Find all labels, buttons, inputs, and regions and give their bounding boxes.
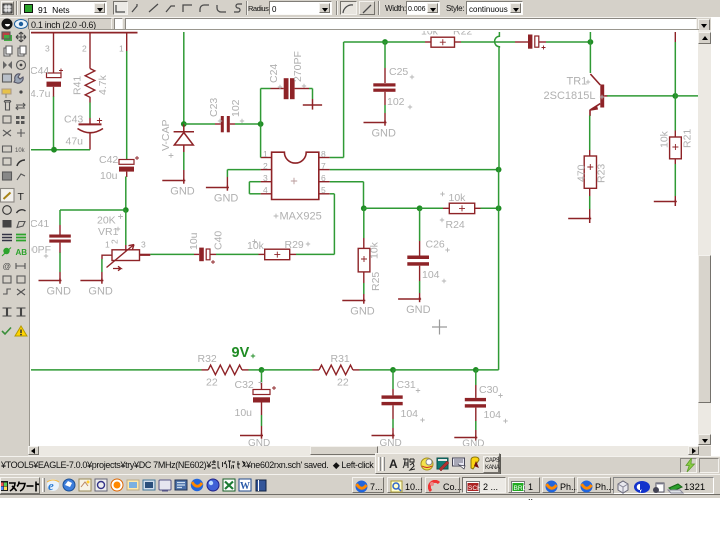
capacitor C43 (polarized) <box>78 124 104 149</box>
junction C42/C41/VR1 <box>123 207 129 213</box>
R22 left pin <box>425 41 431 43</box>
U1 pin 8 stub <box>319 157 330 159</box>
wire pin2 to GND <box>227 169 260 171</box>
resistor R23 <box>584 156 596 188</box>
R23 bottom pin <box>589 188 591 196</box>
ground bar under R23 <box>568 217 591 224</box>
svg-text:C40: C40 <box>213 231 225 250</box>
svg-text:V-CAP: V-CAP <box>160 119 172 151</box>
wire C44 to GND net <box>53 97 55 150</box>
C40 right pin <box>210 253 216 255</box>
svg-text:4.7k: 4.7k <box>97 74 109 95</box>
gnd pin <box>475 430 477 438</box>
svg-text:GND: GND <box>88 286 113 298</box>
capacitor C21 (polarized) <box>528 35 539 49</box>
U1 pin 5 stub <box>319 193 330 195</box>
wire R25 to GND <box>363 283 365 294</box>
connector edge (off-screen part) top <box>31 32 138 34</box>
junction C44/net <box>51 147 57 153</box>
C26 top pin <box>419 241 421 256</box>
wire top to varactor <box>183 32 185 124</box>
R21 bottom pin <box>674 159 676 164</box>
coordinate display <box>28 18 112 30</box>
svg-text:GND: GND <box>214 193 239 205</box>
junction C23/C24/pin1 <box>258 121 264 127</box>
svg-text:R22: R22 <box>453 31 472 38</box>
trash / pinswap <box>4 101 11 111</box>
junction C31 tap <box>390 367 396 373</box>
svg-text:1: 1 <box>119 44 124 54</box>
R23 top pin <box>589 150 591 156</box>
mirror / rotate <box>3 61 12 69</box>
svg-text:GND: GND <box>248 438 270 446</box>
wire R41 to C43 <box>89 103 91 119</box>
capacitor C40 (polarized) <box>199 248 210 262</box>
U1 pin 7 stub <box>319 169 330 171</box>
svg-text:C23: C23 <box>208 98 220 117</box>
gates <box>3 289 11 294</box>
R25 top pin <box>363 238 365 248</box>
gnd pin <box>261 426 263 436</box>
svg-text:@: @ <box>3 261 12 271</box>
R29 right pin <box>290 253 296 255</box>
wire varactor to GND <box>183 152 185 170</box>
info and eye tool icons top-left <box>0 17 29 30</box>
ground GND under C32 <box>240 434 263 439</box>
wire pin6 right <box>330 181 364 183</box>
svg-text:4: 4 <box>263 185 268 195</box>
U1 origin cross <box>291 178 297 184</box>
svg-text:10k: 10k <box>15 148 26 154</box>
scrollbar right arrow <box>688 446 699 455</box>
wire up to pin5 <box>333 194 335 255</box>
wire C30 to GND <box>475 421 477 430</box>
wire pin8 right <box>330 157 344 159</box>
erc boxes <box>3 276 11 283</box>
circle / arc <box>3 206 12 215</box>
svg-text:C25: C25 <box>389 66 408 78</box>
wire pin1 to C42 <box>126 51 128 159</box>
bus / net <box>2 235 12 241</box>
svg-text:GND: GND <box>406 304 431 316</box>
svg-text:22: 22 <box>206 377 218 389</box>
wire VR1-1 to GND <box>101 259 103 272</box>
ground GND under C26 <box>398 297 421 302</box>
svg-text:R23: R23 <box>596 164 608 183</box>
svg-text:9V: 9V <box>232 345 250 361</box>
wire to R24 <box>420 207 443 209</box>
junction R24/vertical <box>496 205 502 211</box>
wire junction down to C30 <box>475 370 477 385</box>
wire C23 to junction <box>235 123 261 125</box>
wire rail to C30 junction <box>393 369 476 371</box>
wire junction to C41 <box>60 209 126 211</box>
svg-text:10k: 10k <box>659 130 671 148</box>
wire corner to C24 <box>261 88 271 90</box>
gnd pin <box>674 196 676 202</box>
wire R31 to C31 junction <box>360 369 394 371</box>
junction C25 tap <box>382 39 388 45</box>
wire left gnd net <box>31 149 90 151</box>
svg-text:8: 8 <box>321 149 326 159</box>
capacitor C24 <box>284 78 295 99</box>
gateswap / lock <box>3 130 11 136</box>
ground GND under R25 <box>342 299 365 304</box>
R31 left pin <box>313 369 320 371</box>
resistor R24 <box>449 203 474 213</box>
rect / polygon <box>3 220 12 228</box>
info / optimize <box>3 172 12 180</box>
svg-text:102: 102 <box>230 99 242 117</box>
ground bar under R21 <box>654 200 677 207</box>
wire junction down to C26 <box>419 208 421 241</box>
wire R24 to vertical net <box>481 207 499 209</box>
svg-text:C44: C44 <box>31 65 49 77</box>
miter button <box>359 1 375 15</box>
wire pin6 down <box>363 182 365 209</box>
svg-text:C30: C30 <box>479 384 498 396</box>
C40 left pin <box>194 253 199 255</box>
wire junction up to C24 net <box>260 89 262 125</box>
VR1 direction arrow <box>113 266 121 270</box>
junction C30 tap <box>473 367 479 373</box>
command line <box>125 18 697 30</box>
pin C41 top <box>59 225 61 235</box>
potentiometer VR1 <box>102 245 150 268</box>
check / erc warning <box>2 328 11 335</box>
wire C40 to R29 <box>216 253 259 255</box>
capacitor C31 <box>382 395 403 405</box>
resistor R29 <box>265 249 290 260</box>
wire VR1 to C40 <box>150 253 194 255</box>
gnd pin <box>589 209 591 219</box>
wire R23 to GND <box>589 196 591 209</box>
capacitor C30 <box>465 398 486 408</box>
wire pin2 to R41 <box>89 32 91 69</box>
svg-text:10u: 10u <box>235 407 253 419</box>
svg-text:10k: 10k <box>449 192 467 204</box>
svg-text:W: W <box>240 481 250 492</box>
svg-text:GND: GND <box>380 438 402 446</box>
ground GND under VR1 <box>80 279 103 284</box>
resistor R25 <box>358 248 370 272</box>
small box <box>114 18 123 30</box>
wire corner down <box>226 170 228 177</box>
svg-text:C42: C42 <box>99 154 118 166</box>
capacitor C23 <box>221 116 230 132</box>
gnd pin <box>384 113 386 122</box>
svg-text:00PF: 00PF <box>31 244 51 256</box>
svg-text:3: 3 <box>45 44 50 54</box>
wire junction to C26 junction <box>364 207 420 209</box>
wire R32 to C32 junction <box>249 369 262 371</box>
U1 pin 3 stub <box>261 181 272 183</box>
svg-text:AB: AB <box>16 248 28 257</box>
replace / array <box>3 116 11 123</box>
wire TR1 base net <box>607 95 675 97</box>
ground GND under varactor <box>162 179 185 184</box>
start button <box>0 477 40 494</box>
svg-text:MAX925: MAX925 <box>280 211 322 223</box>
svg-text:C32: C32 <box>235 379 254 391</box>
U1 pin 6 stub <box>319 181 330 183</box>
svg-text:R32: R32 <box>198 353 217 365</box>
svg-text:R31: R31 <box>331 353 350 365</box>
wire base junction to R21 <box>674 96 676 131</box>
junction R25 top <box>361 205 367 211</box>
svg-text:GND: GND <box>372 128 397 140</box>
wire top net left segment <box>344 41 379 43</box>
svg-text:VR1: VR1 <box>98 226 119 238</box>
capacitor C26 <box>407 256 429 266</box>
capacitor C44 <box>47 73 62 97</box>
svg-text:270PF: 270PF <box>292 51 304 82</box>
wire C32 to GND <box>261 415 263 426</box>
resistor R31 <box>319 365 353 375</box>
wire down to C41 <box>59 210 61 225</box>
junction collector net <box>588 39 594 45</box>
ground GND under C41 <box>39 279 62 284</box>
scrollbar thumb <box>698 255 711 403</box>
svg-text:2SC1815L: 2SC1815L <box>544 90 596 102</box>
wire top to base junction <box>674 42 676 96</box>
svg-text:47u: 47u <box>66 136 84 148</box>
arc button pressed <box>340 1 357 15</box>
svg-text:T: T <box>18 191 25 203</box>
wire top net to R22 <box>379 41 425 43</box>
gnd pin <box>101 272 103 281</box>
C32 top pin <box>261 383 263 390</box>
U1 pin 2 stub <box>261 169 272 171</box>
grid button <box>1 1 14 15</box>
C25 top pin <box>384 68 386 83</box>
U1 pin 4 stub <box>261 193 272 195</box>
svg-text:2: 2 <box>110 239 120 244</box>
svg-text:10k: 10k <box>369 241 381 259</box>
gnd pin <box>183 170 185 180</box>
origin cross marker <box>432 320 447 335</box>
svg-text:10k: 10k <box>421 31 439 38</box>
VR1 pin3 stub <box>140 253 151 255</box>
wire C21 to TR1 collector net <box>546 41 590 43</box>
wire junction down to C32 <box>261 370 263 383</box>
wire C26 to GND <box>419 281 421 293</box>
wire R22 to hop <box>461 41 515 43</box>
ground GND at pin2 <box>206 186 229 191</box>
name / value <box>3 146 12 152</box>
svg-text:470: 470 <box>576 164 588 182</box>
svg-text:10u: 10u <box>188 232 200 250</box>
wire 9V rail left <box>31 369 202 371</box>
svg-text:C24: C24 <box>268 64 280 83</box>
scrollbar h thumb <box>310 446 378 455</box>
gnd pin <box>226 177 228 187</box>
svg-text:GND: GND <box>350 306 375 318</box>
svg-text:GND: GND <box>170 186 195 198</box>
varactor diode V-CAP <box>174 124 194 152</box>
wire pin3-4 loop left <box>248 182 250 194</box>
wire vertical net upper <box>498 48 500 170</box>
radius combo <box>269 1 332 15</box>
scrollbar down arrow <box>698 434 711 445</box>
svg-text:SCH: SCH <box>468 485 480 492</box>
svg-text:GND: GND <box>47 286 72 298</box>
svg-text:R25: R25 <box>370 272 382 291</box>
svg-text:22: 22 <box>337 377 349 389</box>
bracket boxes <box>3 308 26 316</box>
junction C26 tap <box>417 205 423 211</box>
wire R21 to GND <box>674 164 676 196</box>
group / wrench <box>3 74 12 82</box>
gnd pin <box>419 293 421 299</box>
svg-text:C31: C31 <box>397 379 416 391</box>
svg-text:GND: GND <box>462 439 484 446</box>
svg-text:2: 2 <box>82 44 87 54</box>
svg-text:C26: C26 <box>426 239 445 251</box>
svg-text:BRD: BRD <box>514 485 526 492</box>
ground bar under C24 <box>303 99 322 110</box>
svg-text:C43: C43 <box>64 114 83 126</box>
C24 right pin <box>295 88 309 90</box>
svg-text:104: 104 <box>484 409 502 421</box>
C24 left pin <box>271 88 284 90</box>
CAPS KANA button <box>483 456 499 473</box>
wire junction down to C25 <box>384 42 386 68</box>
svg-text:2: 2 <box>263 161 268 171</box>
svg-text:3: 3 <box>141 240 146 250</box>
katakana start text <box>8 480 40 493</box>
system tray <box>613 477 714 494</box>
capacitor C25 <box>373 83 395 91</box>
svg-text:R24: R24 <box>446 219 465 231</box>
svg-text:3: 3 <box>263 173 268 183</box>
resistor R21 <box>670 137 682 159</box>
junction C32 tap <box>259 367 265 373</box>
junction / label <box>3 248 9 254</box>
junction base/R21 <box>672 93 678 99</box>
U1 pin 1 stub <box>261 157 272 159</box>
capacitor C41 <box>49 235 71 254</box>
wire R29 to corner <box>296 253 334 255</box>
R24 left pin <box>443 207 449 209</box>
op-amp U1 MAX925 <box>272 152 319 199</box>
svg-text:7: 7 <box>321 161 326 171</box>
C23 right pin <box>230 123 235 125</box>
resistor R22 <box>431 37 455 47</box>
wire junction to R25 <box>363 208 365 238</box>
smash / miter <box>3 158 11 165</box>
active task button <box>462 477 506 493</box>
width combo <box>406 1 440 15</box>
wire(pressed) / text <box>1 189 15 203</box>
svg-text:C41: C41 <box>31 218 49 230</box>
wire junction to VR1 wiper <box>125 210 127 245</box>
ground GND under C30 <box>454 436 477 441</box>
resistor R32 <box>208 365 242 375</box>
wire C42 to junction <box>125 177 127 211</box>
junction pin7/vertical <box>496 167 502 173</box>
svg-text:6: 6 <box>321 173 326 183</box>
transistor TR1 2SC1815L <box>590 74 608 116</box>
svg-text:104: 104 <box>401 408 419 420</box>
C21 left pin <box>515 41 528 43</box>
wire vertical net lower <box>498 208 500 370</box>
R31 right pin <box>353 369 360 371</box>
wire junction down to pin1 <box>260 124 262 158</box>
svg-text:R21: R21 <box>682 129 694 148</box>
R29 left pin <box>259 253 265 255</box>
wire corner to pin5 stub <box>330 193 335 195</box>
wire emitter to R23 <box>589 116 591 151</box>
wire junction down to C31 <box>392 370 394 389</box>
wire junction down to TR1 collector <box>589 42 591 73</box>
paint / dot <box>2 89 11 94</box>
ground GND under C25 <box>364 121 387 126</box>
wire pin8 up to top net <box>343 42 345 158</box>
gnd pin <box>363 294 365 301</box>
wire C25 to GND <box>384 105 386 113</box>
svg-text:1: 1 <box>263 149 268 159</box>
R25 bottom pin <box>363 272 365 283</box>
R32 right pin <box>242 369 249 371</box>
pin 1 stub <box>126 32 128 51</box>
IME tool icons <box>420 457 434 471</box>
copy <box>4 48 10 56</box>
svg-text:R29: R29 <box>285 239 304 251</box>
task buttons <box>352 477 384 493</box>
wire C31 to GND <box>392 419 394 428</box>
wire top edge stub <box>589 32 591 42</box>
wire pin7 to vertical net <box>330 169 499 171</box>
svg-text:20K: 20K <box>97 215 116 227</box>
gnd pin <box>392 428 394 436</box>
EAGLE activity lightning <box>680 458 697 473</box>
gnd pin <box>59 272 61 281</box>
R24 right pin <box>475 207 481 209</box>
capacitor C32 (polarized) <box>253 390 270 403</box>
scrollbar left arrow <box>28 446 39 455</box>
scrollbar up arrow <box>698 32 711 44</box>
C31 top pin <box>392 389 394 395</box>
wire down to bar <box>312 89 314 100</box>
svg-text:R41: R41 <box>72 76 84 95</box>
svg-text:1: 1 <box>105 240 110 250</box>
C21 right pin <box>539 41 546 43</box>
pin stub from top at R21 net <box>674 32 676 42</box>
C23 left pin <box>215 123 221 125</box>
svg-text:104: 104 <box>422 269 440 281</box>
wire rail to vertical net corner <box>476 369 499 371</box>
svg-text:5: 5 <box>321 185 326 195</box>
wire C24 to corner <box>309 88 313 90</box>
wire varactor to C23 <box>184 123 215 125</box>
capacitor C42 (polarized) <box>119 160 134 178</box>
wire C41 to GND <box>59 253 61 273</box>
wire pin3 loop top <box>249 181 260 183</box>
wire hop over vertical net <box>495 32 500 48</box>
wire pin4 loop bottom <box>249 193 260 195</box>
wire vertical net middle <box>498 170 500 209</box>
style combo <box>466 1 523 15</box>
C30 top pin <box>475 385 477 398</box>
ground GND under C31 <box>372 434 395 439</box>
wire base net to canvas edge <box>675 95 700 97</box>
pin C43 top <box>89 118 91 124</box>
R32 left pin <box>202 369 209 371</box>
resistor R41 <box>85 69 95 103</box>
wire pin3 to C44 <box>53 32 55 73</box>
R21 top pin <box>674 131 676 138</box>
